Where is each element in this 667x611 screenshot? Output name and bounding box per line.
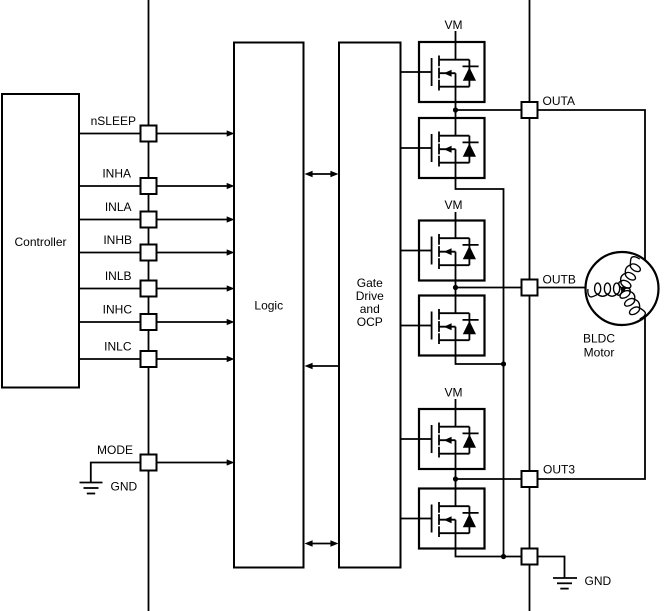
wire: left vertical bus <box>148 0 150 611</box>
node junction gnd bus C <box>501 554 506 559</box>
wire VM stem C <box>455 399 457 409</box>
wire MODE from ground <box>91 463 141 483</box>
gate stub Q1 <box>401 71 421 73</box>
node motor star point <box>621 287 626 292</box>
svg-text:Drive: Drive <box>356 289 384 303</box>
transistor Q4 phase B low-side <box>419 296 485 356</box>
wire INLC from controller <box>79 358 141 360</box>
wire OUTB <box>456 287 588 289</box>
svg-text:GND: GND <box>585 574 612 588</box>
wire OUTA <box>456 110 646 260</box>
wire: right vertical bus <box>529 0 531 611</box>
pin pad OUT3 <box>522 471 538 487</box>
wire VM stem A <box>455 31 457 42</box>
wire INHB arrow to logic <box>157 249 235 255</box>
pin pad INLB <box>141 281 157 297</box>
pin pad MODE <box>141 455 157 471</box>
wire Q3 source to Q4 drain <box>455 281 457 296</box>
svg-text:INHC: INHC <box>103 302 133 316</box>
svg-text:Logic: Logic <box>254 299 283 313</box>
svg-text:Gate: Gate <box>357 276 383 290</box>
pin pad INHA <box>141 178 157 194</box>
gate stub Q4 <box>401 325 421 327</box>
pin pad INHC <box>141 314 157 330</box>
wire INLB arrow to logic <box>157 285 235 291</box>
svg-text:VM: VM <box>445 18 463 32</box>
wire INLB from controller <box>79 288 141 290</box>
logic block <box>234 43 304 568</box>
wire MODE arrow to logic <box>157 459 235 465</box>
wire nSLEEP from controller <box>79 133 141 135</box>
wire bottom pad to ground <box>538 557 565 578</box>
pin pad INHB <box>141 245 157 261</box>
motor winding phase B (left) <box>588 283 622 297</box>
pin pad GND bottom <box>522 549 538 565</box>
motor winding phase A (upper right) <box>616 255 645 292</box>
svg-text:VM: VM <box>445 386 463 400</box>
svg-text:OCP: OCP <box>357 315 383 329</box>
svg-text:MODE: MODE <box>97 443 133 457</box>
wire INHA arrow to logic <box>157 183 235 189</box>
node junction gnd bus B <box>501 361 506 366</box>
svg-text:INHB: INHB <box>103 233 132 247</box>
wire Q4 source to gnd bus <box>456 356 504 365</box>
gate drive and OCP block <box>339 43 401 568</box>
wire OUT3 <box>456 317 646 479</box>
wire INLA arrow to logic <box>157 216 235 222</box>
gate stub Q2 <box>401 147 421 149</box>
gate stub Q5 <box>401 438 421 440</box>
wire Q2 source to gnd bus <box>456 178 504 557</box>
wire INHC from controller <box>79 321 141 323</box>
node junction OUTA <box>453 107 458 112</box>
motor M1 circle <box>586 252 659 325</box>
pin pad INLC <box>141 351 157 367</box>
transistor Q1 phase A high-side <box>419 42 485 102</box>
wire nSLEEP arrow to logic <box>157 130 235 136</box>
transistor Q3 phase B high-side <box>419 221 485 281</box>
svg-text:INLB: INLB <box>105 269 132 283</box>
transistor Q5 phase C high-side <box>419 409 485 469</box>
svg-text:nSLEEP: nSLEEP <box>91 114 136 128</box>
pin pad OUTA <box>522 102 538 118</box>
bidirectional arrow logic/gatedrive bottom <box>305 540 339 547</box>
pin pad INLA <box>141 212 157 228</box>
wire Q6 source to bottom pad <box>456 549 522 557</box>
wire Q1 source to Q2 drain <box>455 102 457 118</box>
ground symbol (MODE) <box>80 483 103 494</box>
wire INHC arrow to logic <box>157 319 235 325</box>
wire Q5 source to Q6 drain <box>455 469 457 489</box>
node junction OUT3 <box>453 476 458 481</box>
pin pad nSLEEP <box>141 126 157 142</box>
bidirectional arrow logic/gatedrive top <box>305 171 339 178</box>
ground symbol (bottom right) <box>553 578 577 589</box>
transistor Q6 phase C low-side <box>419 489 485 549</box>
svg-text:OUTA: OUTA <box>543 94 575 108</box>
wire INLC arrow to logic <box>157 356 235 362</box>
wire VM stem B <box>455 212 457 221</box>
svg-text:OUTB: OUTB <box>543 272 576 286</box>
arrow gatedrive to logic (middle) <box>305 363 340 370</box>
svg-text:GND: GND <box>111 480 138 494</box>
node junction OUTB <box>453 285 458 290</box>
wire INHB from controller <box>79 252 141 254</box>
svg-text:VM: VM <box>445 198 463 212</box>
svg-text:and: and <box>360 302 380 316</box>
wire INHA from controller <box>79 185 141 187</box>
wire INLA from controller <box>79 219 141 221</box>
svg-text:Motor: Motor <box>584 346 615 360</box>
svg-text:BLDC: BLDC <box>583 332 615 346</box>
gate stub Q3 <box>401 250 421 252</box>
svg-text:Controller: Controller <box>14 235 66 249</box>
svg-text:INHA: INHA <box>102 166 131 180</box>
controller block U1 <box>2 94 79 388</box>
svg-text:INLC: INLC <box>104 339 132 353</box>
pin pad OUTB <box>522 280 538 296</box>
svg-text:OUT3: OUT3 <box>543 463 575 477</box>
svg-text:INLA: INLA <box>105 200 132 214</box>
gate stub Q6 <box>401 518 421 520</box>
motor winding phase C (lower right) <box>617 285 646 322</box>
transistor Q2 phase A low-side <box>419 118 485 178</box>
